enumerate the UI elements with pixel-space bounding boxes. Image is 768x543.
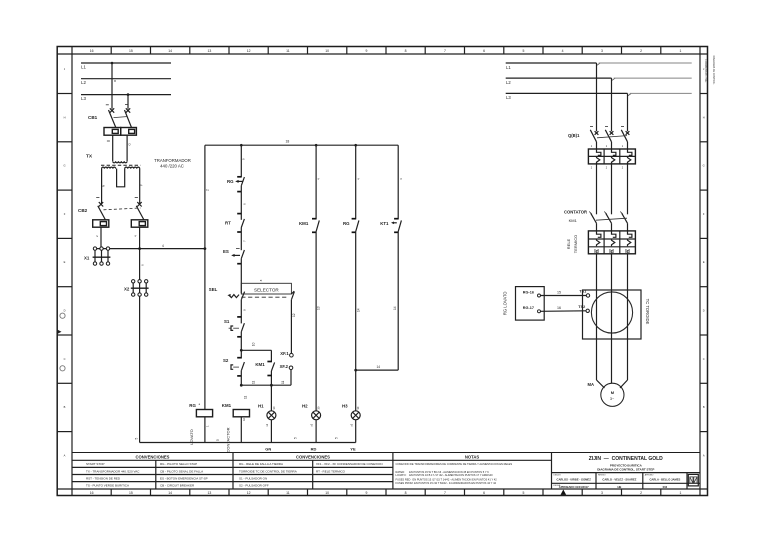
svg-text:16: 16 xyxy=(90,491,94,495)
wire CB1 to TX primary xyxy=(107,135,132,161)
wire KM1 contact to lamp H2 xyxy=(316,232,321,411)
wire CB2 right to X2 xyxy=(134,227,140,280)
fuse F2 (CB1 right pole) xyxy=(121,128,137,136)
svg-text:L3: L3 xyxy=(506,95,511,100)
lamp H1 (GN) xyxy=(258,403,276,442)
svg-text:C: C xyxy=(703,357,705,361)
svg-text:CB1: CB1 xyxy=(88,115,98,120)
wire 5 : ladder bottom rail xyxy=(135,437,356,443)
fuse F1 (CB1 left pole) xyxy=(104,128,121,136)
svg-text:RG - PILOTO SELLO STAP: RG - PILOTO SELLO STAP xyxy=(160,462,197,466)
svg-text:RT: RT xyxy=(225,221,231,226)
wire 4 : X1 to control rail xyxy=(95,244,206,250)
svg-text:1: 1 xyxy=(679,49,681,53)
svg-text:B: B xyxy=(703,405,705,409)
svg-text:RG: RG xyxy=(343,221,350,226)
contactor KM1 (power poles) xyxy=(564,210,628,224)
switch SEL right pole xyxy=(291,291,294,300)
wire S2 to node 11 xyxy=(240,371,248,399)
svg-text:START STOP: START STOP xyxy=(86,462,104,466)
transformer TX xyxy=(86,154,144,205)
svg-text:CONTATOR: CONTATOR xyxy=(564,210,587,215)
title block xyxy=(72,453,700,495)
coil KM1 (CONTACTOR) xyxy=(222,403,250,452)
wire CB2 left to X1 xyxy=(95,227,101,248)
svg-text:18: 18 xyxy=(286,140,290,144)
svg-text:TRANFORMADOR: TRANFORMADOR xyxy=(154,158,191,163)
svg-text:DIAGRAMA DE CONTROL: DIAGRAMA DE CONTROL xyxy=(712,56,715,86)
node L1 (right bus) xyxy=(506,63,692,70)
svg-text:7: 7 xyxy=(444,49,446,53)
svg-text:XF.2: XF.2 xyxy=(280,364,289,369)
svg-text:XF.1: XF.1 xyxy=(280,351,289,356)
svg-text:CONVENCIONES: CONVENCIONES xyxy=(136,455,170,460)
svg-text:6: 6 xyxy=(483,49,485,53)
svg-text:5: 5 xyxy=(135,438,139,440)
svg-text:E: E xyxy=(64,260,66,264)
svg-text:S1: S1 xyxy=(224,319,230,324)
svg-text:TX - TRANSFORMADOR 440 /220 V: TX - TRANSFORMADOR 440 /220 VAC xyxy=(86,469,140,473)
svg-text:X1: X1 xyxy=(84,256,90,261)
svg-text:3: 3 xyxy=(601,49,603,53)
svg-text:LOVATO: EN PUNTOS 16 B 17 /: LOVATO: EN PUNTOS 16 B 17 /17 /42 - ALIM… xyxy=(396,473,494,477)
wire color label YE xyxy=(350,446,356,451)
wire RT to ES xyxy=(241,228,246,251)
wire S1 to node 10 xyxy=(240,332,243,359)
svg-text:DIAGRAMA DE CONTROL, START STE: DIAGRAMA DE CONTROL, START STEP xyxy=(597,468,654,472)
wire L1 dropper xyxy=(596,63,598,131)
node L3 (left bus) xyxy=(81,95,171,102)
wire left ladder rail xyxy=(205,145,210,409)
svg-text:XF1 - XF2 - XF CONDENSADOR DE: XF1 - XF2 - XF CONDENSADOR DE CONEXION xyxy=(316,462,383,466)
relay box RG LOVATO xyxy=(503,287,545,321)
svg-text:16: 16 xyxy=(557,306,561,310)
svg-text:5: 5 xyxy=(216,439,220,441)
svg-text:CB2: CB2 xyxy=(78,208,88,213)
node L3 (right bus) xyxy=(506,93,692,100)
svg-text:HB: HB xyxy=(617,485,621,489)
switch SEL (selector contact, left pole) xyxy=(209,287,289,300)
svg-text:REVISO: REVISO xyxy=(598,474,606,476)
wire RG contact to lamp H3 xyxy=(354,232,360,411)
svg-text:1: 1 xyxy=(679,491,681,495)
svg-text:APROBO: APROBO xyxy=(645,473,654,476)
contact ES (emergency stop) xyxy=(223,249,244,264)
svg-text:ZIJIN — CONTINENTAL GOLD: ZIJIN — CONTINENTAL GOLD xyxy=(589,456,663,462)
wire color label GN xyxy=(265,446,271,451)
svg-text:TERMICO: TERMICO xyxy=(573,235,578,253)
svg-text:TS - PUNTO VERDE BURITICA: TS - PUNTO VERDE BURITICA xyxy=(86,484,129,488)
breaker Q(B)1 xyxy=(568,127,629,142)
svg-text:10: 10 xyxy=(252,342,256,346)
svg-text:11: 11 xyxy=(281,380,285,384)
svg-text:D: D xyxy=(64,309,66,313)
svg-text:CARLO - VELEZ - SUAREZ: CARLO - VELEZ - SUAREZ xyxy=(602,478,636,482)
fuse F3 (CB2 left pole) xyxy=(93,220,109,227)
svg-text:TX: TX xyxy=(86,154,93,160)
svg-text:15: 15 xyxy=(557,290,561,294)
svg-text:KT1: KT1 xyxy=(380,221,389,226)
svg-text:G: G xyxy=(63,164,65,168)
connector pin XF.2 xyxy=(280,364,293,385)
svg-text:10: 10 xyxy=(325,49,329,53)
terminal TS1 xyxy=(579,289,589,297)
svg-text:4: 4 xyxy=(562,49,564,53)
svg-text:13: 13 xyxy=(317,306,321,310)
breaker CB2 xyxy=(78,198,144,220)
wires toroid to motor xyxy=(597,290,628,388)
svg-text:H: H xyxy=(703,115,705,119)
svg-text:YE: YE xyxy=(350,446,356,451)
fuse F4 (CB2 right pole) xyxy=(131,220,148,227)
svg-text:FUSES PROM. EN PUNTOS 15 /42 T: FUSES PROM. EN PUNTOS 15 /42 T 84/42 - 4… xyxy=(396,481,497,485)
svg-text:13: 13 xyxy=(208,491,212,495)
svg-text:ES: ES xyxy=(223,249,229,254)
svg-text:5: 5 xyxy=(294,437,298,439)
wire control column xyxy=(241,145,245,177)
svg-text:KM1: KM1 xyxy=(255,362,265,367)
wire L3 dropper xyxy=(627,93,629,131)
wire 15 : RG-16 to TS1 xyxy=(541,290,587,295)
svg-text:440 /220 AC: 440 /220 AC xyxy=(160,163,184,168)
svg-text:S2 - PULSADOR OFF: S2 - PULSADOR OFF xyxy=(239,484,269,488)
motor MA (M 3~) xyxy=(588,382,625,407)
svg-text:APROBADO 31/01/2017: APROBADO 31/01/2017 xyxy=(559,485,589,489)
contact KM1 aux (seal-in) xyxy=(255,350,274,386)
svg-text:S2: S2 xyxy=(223,358,229,363)
svg-text:11: 11 xyxy=(286,49,290,53)
svg-text:F: F xyxy=(140,184,144,186)
svg-text:B: B xyxy=(64,405,66,409)
svg-text:L2: L2 xyxy=(506,80,511,85)
svg-text:CONTACTOR: CONTACTOR xyxy=(226,427,231,452)
node L2 (left bus) xyxy=(81,79,171,86)
svg-text:MA: MA xyxy=(588,382,595,387)
svg-text:2: 2 xyxy=(640,491,642,495)
svg-text:2: 2 xyxy=(206,189,210,191)
connector pin XF.1 xyxy=(280,351,293,357)
svg-text:8: 8 xyxy=(405,491,407,495)
svg-text:CONVENCIONES: CONVENCIONES xyxy=(296,455,330,460)
wire node 11 to lamp H1 xyxy=(270,385,272,411)
contact RG (ground fault relay, trip) xyxy=(227,177,244,192)
svg-text:9: 9 xyxy=(365,491,367,495)
contact KM1 (lamp GN column) xyxy=(299,145,321,232)
svg-text:N: N xyxy=(102,185,106,187)
svg-text:G: G xyxy=(703,164,705,168)
wire color label RD xyxy=(311,446,317,451)
svg-text:10: 10 xyxy=(325,491,329,495)
svg-text:TORROIDE TC DE CONTROL DE TIER: TORROIDE TC DE CONTROL DE TIERRA xyxy=(239,469,297,473)
svg-text:RG-16: RG-16 xyxy=(523,290,534,294)
svg-text:X2: X2 xyxy=(124,287,130,292)
svg-text:11: 11 xyxy=(252,380,256,384)
terminal TS2 xyxy=(578,305,589,313)
svg-text:15: 15 xyxy=(129,491,133,495)
svg-text:14: 14 xyxy=(377,365,381,369)
svg-text:CB - CIRCUIT BREAKER: CB - CIRCUIT BREAKER xyxy=(160,484,195,488)
contact RG (lamp RD column) xyxy=(343,145,360,232)
svg-text:S1 - PULSADOR ON: S1 - PULSADOR ON xyxy=(239,476,267,480)
svg-text:L1: L1 xyxy=(506,65,511,70)
svg-text:14: 14 xyxy=(356,308,360,312)
terminal block X1 xyxy=(84,247,110,265)
svg-text:14: 14 xyxy=(393,306,397,310)
svg-text:H2: H2 xyxy=(302,403,308,408)
svg-text:L3: L3 xyxy=(81,96,86,101)
svg-text:CB - PILOTO SENAL DE FALLA: CB - PILOTO SENAL DE FALLA xyxy=(160,469,203,473)
selector box SELECTOR xyxy=(241,279,291,294)
wire L1 tap to CB1 xyxy=(111,62,117,109)
wires thermal relay to toroid xyxy=(596,254,598,290)
coil RG (LOVATO relay) xyxy=(189,403,213,445)
svg-text:SELECTOR: SELECTOR xyxy=(254,287,279,292)
svg-text:5: 5 xyxy=(522,491,524,495)
svg-text:H1: H1 xyxy=(258,403,264,408)
wire SEL right pole to XF.1 xyxy=(291,300,296,354)
svg-text:6: 6 xyxy=(483,491,485,495)
svg-text:RST - TENSION DE RED: RST - TENSION DE RED xyxy=(86,476,121,480)
svg-text:11: 11 xyxy=(286,491,290,495)
svg-text:15: 15 xyxy=(129,49,133,53)
svg-text:TS2: TS2 xyxy=(578,305,585,309)
svg-text:A: A xyxy=(703,453,705,457)
svg-text:TC TOROIDE: TC TOROIDE xyxy=(645,299,650,325)
svg-text:DIBUJO: DIBUJO xyxy=(554,474,562,476)
svg-text:RT - RELE TERMICO: RT - RELE TERMICO xyxy=(316,469,346,473)
svg-text:CARLA - BELLO JAMES: CARLA - BELLO JAMES xyxy=(649,478,680,482)
svg-text:RD: RD xyxy=(311,446,317,451)
svg-text:KM1: KM1 xyxy=(299,221,309,226)
svg-text:C: C xyxy=(64,357,66,361)
svg-text:PROYECTO BURITICA: PROYECTO BURITICA xyxy=(610,463,643,467)
label TRANFORMADOR 440/220 AC xyxy=(154,158,191,168)
svg-text:13: 13 xyxy=(208,49,212,53)
svg-text:H: H xyxy=(64,115,66,119)
svg-text:2: 2 xyxy=(640,49,642,53)
svg-text:RG LOVATO: RG LOVATO xyxy=(503,291,508,315)
wire SEL to S1 xyxy=(237,300,246,324)
wire L3 tap to CB1 xyxy=(125,93,129,109)
svg-text:14: 14 xyxy=(168,49,172,53)
thermal relay (RELE TERMICO) xyxy=(566,231,635,255)
svg-text:RG: RG xyxy=(189,403,196,408)
wire X2 down to bottom rail xyxy=(140,264,145,443)
wire 16 : RG-17 to TS2 xyxy=(541,306,587,311)
svg-text:GN: GN xyxy=(265,446,271,451)
svg-text:Q(B)1: Q(B)1 xyxy=(568,133,580,138)
wires contactor to thermal relay xyxy=(596,223,598,231)
svg-text:4: 4 xyxy=(162,244,164,248)
lamp H3 (YE) xyxy=(342,403,360,442)
svg-text:8: 8 xyxy=(405,49,407,53)
svg-text:L2: L2 xyxy=(81,80,86,85)
contact RT (thermal relay) xyxy=(225,219,244,232)
terminal block X2 xyxy=(124,280,149,297)
svg-text:RG - RELE DE FALLA A TIERRA: RG - RELE DE FALLA A TIERRA xyxy=(239,462,283,466)
svg-text:E: E xyxy=(703,260,705,264)
svg-text:9: 9 xyxy=(365,49,367,53)
svg-text:SEL: SEL xyxy=(209,287,218,292)
wires fuse unit to contactor xyxy=(596,164,598,214)
fuse unit (3 pole) xyxy=(588,145,635,170)
svg-text:KM1: KM1 xyxy=(569,218,578,223)
wires Q(B)1 to fuse unit xyxy=(596,142,598,149)
wire KT1 column to RD column xyxy=(356,232,399,371)
svg-text:12: 12 xyxy=(292,313,296,317)
svg-text:H3: H3 xyxy=(342,403,348,408)
svg-text:ES - BOTON EMERGENCIA ST-SP: ES - BOTON EMERGENCIA ST-SP xyxy=(160,476,208,480)
lamp H2 (RD) xyxy=(302,403,321,442)
svg-text:RG-17: RG-17 xyxy=(523,306,534,310)
svg-text:RELE: RELE xyxy=(566,238,571,249)
svg-text:KM1: KM1 xyxy=(222,403,232,408)
svg-text:5: 5 xyxy=(522,49,524,53)
node L1 (left bus) xyxy=(81,63,171,70)
svg-text:NOTAS: NOTAS xyxy=(465,455,480,460)
svg-text:16: 16 xyxy=(90,49,94,53)
svg-text:D: D xyxy=(703,309,705,313)
svg-text:5: 5 xyxy=(335,437,339,439)
svg-text:7: 7 xyxy=(444,491,446,495)
wire 11 : lower branch xyxy=(241,380,291,385)
svg-text:12: 12 xyxy=(247,491,251,495)
svg-text:A: A xyxy=(64,453,66,457)
breaker CB1 xyxy=(88,105,132,128)
svg-text:003: 003 xyxy=(663,485,668,489)
node L2 (right bus) xyxy=(506,78,692,85)
pushbutton S1 (start) xyxy=(224,319,244,337)
svg-text:14: 14 xyxy=(168,491,172,495)
svg-text:L1: L1 xyxy=(81,65,86,70)
wire ES to SEL xyxy=(240,259,242,294)
svg-text:11: 11 xyxy=(244,395,248,399)
contact KT1 (timer) xyxy=(380,145,403,232)
svg-text:FORMATO A3 - N.E.: FORMATO A3 - N.E. xyxy=(704,60,707,83)
svg-text:RG: RG xyxy=(227,179,234,184)
wire 18 : ladder top rail xyxy=(205,140,398,147)
wire 10 : branch to KM1 aux xyxy=(241,342,271,350)
svg-text:CARLOS - URIBE - GOMEZ: CARLOS - URIBE - GOMEZ xyxy=(557,478,592,482)
svg-text:3: 3 xyxy=(601,491,603,495)
current transformer TC TOROIDE xyxy=(583,290,650,339)
pushbutton S2 (stop) xyxy=(223,358,244,376)
wire L2 dropper xyxy=(611,78,613,131)
svg-text:CONEXION DE TRANSFORMADORES DE: CONEXION DE TRANSFORMADORES DE CORRIENTE… xyxy=(396,462,513,466)
svg-text:12: 12 xyxy=(247,49,251,53)
wire RG to RT xyxy=(237,186,246,220)
